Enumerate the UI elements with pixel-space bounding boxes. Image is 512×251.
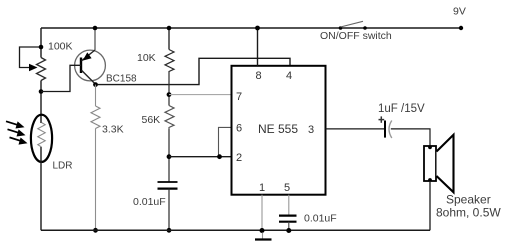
svg-text:10K: 10K bbox=[137, 52, 156, 64]
node: C1 ground dot bbox=[167, 228, 172, 233]
label LDR bbox=[53, 161, 73, 172]
svg-text:3: 3 bbox=[308, 124, 314, 136]
node: base/LDR junction dot bbox=[39, 89, 44, 94]
label 10K bbox=[137, 52, 156, 64]
wire: pin 8 riser to rail bbox=[257, 28, 259, 66]
node: 9V battery terminal bbox=[459, 26, 463, 30]
wire: 10K top feed bbox=[168, 28, 170, 50]
wire: 56K bottom to pin2 node bbox=[168, 129, 170, 182]
pin label 2 bbox=[236, 152, 242, 164]
plus sign of C3 bbox=[379, 116, 385, 122]
label 3.3K bbox=[102, 124, 124, 136]
svg-text:0.01uF: 0.01uF bbox=[304, 213, 337, 225]
wire: pot bottom to LDR node bbox=[40, 81, 42, 124]
node: pot wiper junction dot bbox=[39, 45, 44, 50]
label 1uF /15V bbox=[378, 103, 425, 115]
node: speaker bottom terminal dot bbox=[428, 178, 432, 182]
pin label 6 bbox=[236, 123, 242, 135]
node: 3.3K ground dot bbox=[93, 228, 98, 233]
svg-text:3.3K: 3.3K bbox=[102, 124, 124, 136]
svg-text:0.01uF: 0.01uF bbox=[133, 196, 166, 208]
svg-text:100K: 100K bbox=[48, 41, 73, 53]
node: collector junction dot bbox=[93, 82, 98, 87]
transistor emitter lead with arrow bbox=[82, 50, 96, 61]
label 8ohm, 0.5W bbox=[436, 206, 501, 220]
wire: pin 7 bbox=[169, 94, 231, 96]
ground symbol bbox=[255, 233, 272, 240]
label 0.01uF (C1) bbox=[133, 196, 166, 208]
wire: 10K bottom to 56K top (pin7 node) bbox=[168, 73, 170, 106]
pin label 4 bbox=[286, 70, 292, 82]
pin label 1 bbox=[259, 182, 265, 194]
node: speaker top terminal dot bbox=[428, 145, 432, 149]
label 100K bbox=[48, 41, 73, 53]
node: 10K rail dot bbox=[167, 26, 172, 31]
pin label 5 bbox=[284, 182, 290, 194]
svg-text:LDR: LDR bbox=[53, 161, 73, 172]
wire: C2 to ground rail bbox=[288, 222, 290, 231]
speaker cone bbox=[437, 135, 454, 193]
wire: C1 to ground rail bbox=[168, 189, 170, 231]
label NE 555 bbox=[258, 122, 298, 136]
svg-text:ON/OFF switch: ON/OFF switch bbox=[320, 30, 392, 42]
resistor 10K bbox=[165, 50, 174, 74]
wire: left vertical branch (pot top feed) bbox=[40, 28, 42, 58]
resistor 56K bbox=[165, 106, 174, 130]
wire: ground rail bbox=[41, 229, 430, 231]
wire: speaker to ground rail bbox=[429, 181, 431, 230]
svg-text:8ohm, 0.5W: 8ohm, 0.5W bbox=[436, 206, 501, 220]
wire: 3.3K to ground rail bbox=[95, 129, 97, 231]
wire: emitter to +9V rail bbox=[94, 28, 96, 50]
node: C2 ground dot bbox=[286, 228, 291, 233]
wire: LDR bottom to ground rail corner bbox=[40, 147, 42, 230]
svg-text:5: 5 bbox=[284, 182, 290, 194]
wire: pin 1 riser to ground bbox=[261, 195, 263, 231]
op-amp/timer U1 NE 555 box bbox=[232, 66, 326, 195]
pin label 8 bbox=[256, 70, 262, 82]
wire: C3 to speaker bbox=[391, 129, 430, 146]
label ON/OFF switch bbox=[320, 30, 392, 42]
label BC158 bbox=[106, 74, 137, 85]
wire: base wire to LDR node bbox=[41, 65, 81, 91]
transistor base bar bbox=[80, 58, 82, 74]
pin label 7 bbox=[236, 91, 242, 103]
node: emitter rail dot bbox=[93, 26, 98, 31]
label 9V bbox=[453, 6, 466, 18]
node: pin8 rail dot bbox=[255, 26, 260, 31]
capacitor C1 0.01uF bbox=[158, 182, 178, 189]
svg-text:1: 1 bbox=[259, 182, 265, 194]
potentiometer 100K (rheostat) bbox=[20, 47, 46, 81]
wire: pin 5 riser to C2 bbox=[288, 195, 290, 216]
svg-text:NE 555: NE 555 bbox=[258, 122, 298, 136]
resistor 3.3K bbox=[91, 106, 100, 129]
wire: collector down to 3.3K bbox=[95, 85, 97, 106]
LDR symbol bbox=[31, 115, 52, 162]
svg-text:4: 4 bbox=[286, 70, 292, 82]
svg-text:56K: 56K bbox=[142, 114, 161, 126]
node: pin2/6 junction dot bbox=[167, 154, 172, 159]
svg-text:8: 8 bbox=[256, 70, 262, 82]
svg-text:9V: 9V bbox=[453, 6, 466, 18]
svg-text:2: 2 bbox=[236, 152, 242, 164]
label 0.01uF (C2) bbox=[304, 213, 337, 225]
label Speaker bbox=[446, 193, 491, 207]
node: pin7 junction dot bbox=[167, 92, 172, 97]
switch S1 ON/OFF bbox=[339, 21, 367, 30]
node: pin6 jog dot bbox=[217, 154, 222, 159]
transistor Q1 BC158 circle bbox=[75, 50, 106, 81]
wire: collector to pin4 link bbox=[98, 58, 291, 84]
pin label 3 bbox=[308, 124, 314, 136]
label 56K bbox=[142, 114, 161, 126]
svg-text:Speaker: Speaker bbox=[446, 193, 491, 207]
LDR light arrow 2 bbox=[8, 129, 26, 136]
wire: pin2 horizontal bbox=[169, 156, 231, 158]
node: pin1 ground dot bbox=[260, 228, 265, 233]
svg-text:7: 7 bbox=[236, 91, 242, 103]
transistor collector lead bbox=[82, 70, 96, 84]
wire: pin6 jog to pin2 bbox=[219, 127, 232, 156]
speaker body bbox=[424, 146, 436, 181]
LDR light arrow 3 bbox=[10, 137, 28, 144]
wire: +9V top rail bbox=[41, 27, 461, 29]
wire: pin 3 output bbox=[326, 128, 386, 130]
svg-text:1uF /15V: 1uF /15V bbox=[378, 103, 425, 115]
svg-text:BC158: BC158 bbox=[106, 74, 137, 85]
capacitor C3 1uF/15V polarized bbox=[385, 121, 392, 139]
LDR light arrow 1 bbox=[6, 121, 25, 128]
svg-text:6: 6 bbox=[236, 123, 242, 135]
capacitor C2 0.01uF bbox=[279, 216, 297, 222]
